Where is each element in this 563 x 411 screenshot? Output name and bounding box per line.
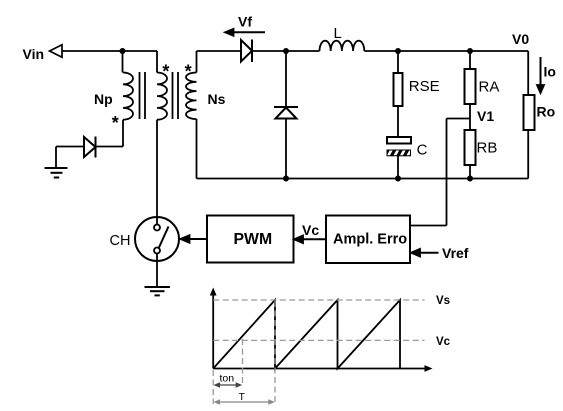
svg-text:Vref: Vref [442,245,469,261]
svg-text:T: T [239,391,246,403]
svg-text:C: C [417,142,428,159]
svg-text:RB: RB [477,140,498,157]
svg-text:RA: RA [479,79,500,96]
svg-text:Ampl. Erro: Ampl. Erro [333,231,407,247]
svg-text:Vs: Vs [436,295,450,307]
svg-text:PWM: PWM [234,231,273,248]
svg-text:V0: V0 [512,31,529,47]
svg-text:*: * [185,62,192,82]
svg-text:Vin: Vin [23,46,45,62]
svg-text:ton: ton [220,373,235,385]
svg-text:V1: V1 [477,108,494,124]
svg-text:Vf: Vf [238,14,252,30]
svg-text:Vc: Vc [302,222,319,238]
svg-text:*: * [112,113,119,133]
svg-text:*: * [162,62,169,82]
svg-text:Ns: Ns [208,91,226,107]
svg-text:RSE: RSE [409,78,440,95]
svg-text:Io: Io [544,64,556,80]
svg-text:CH: CH [110,233,131,249]
svg-text:Vc: Vc [436,336,451,348]
svg-text:L: L [334,25,342,42]
svg-text:Np: Np [94,91,113,107]
svg-text:Ro: Ro [537,104,556,120]
